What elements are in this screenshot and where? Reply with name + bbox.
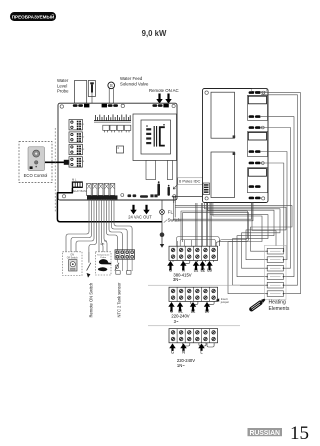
lug row L2 bbox=[249, 115, 261, 118]
svg-text:Temperature: Temperature bbox=[97, 253, 110, 256]
svg-text:jumper: jumper bbox=[220, 300, 229, 304]
triac block 1 bbox=[248, 95, 268, 120]
svg-text:Level: Level bbox=[57, 83, 67, 88]
heating element R5 bbox=[267, 282, 285, 288]
terminal strip 3 mains 220-240V 1ph bbox=[169, 329, 218, 347]
water level probe sensor bbox=[88, 81, 95, 104]
terminal lugs top group 1 (water probe) bbox=[73, 104, 90, 108]
badge RUSSIAN bbox=[248, 428, 283, 437]
svg-text:3~: 3~ bbox=[174, 319, 179, 324]
svg-text:Switch: Switch bbox=[168, 218, 181, 223]
heating element R1 bbox=[267, 248, 285, 254]
terminal lugs top group 3 (remote) bbox=[152, 104, 175, 108]
lug row L4 bbox=[249, 150, 261, 153]
label FL Switch bbox=[164, 209, 181, 222]
svg-text:Water Feed: Water Feed bbox=[120, 76, 143, 81]
ECO control dashed box bbox=[19, 142, 52, 183]
svg-text:Solenoid Valve: Solenoid Valve bbox=[120, 81, 149, 86]
wire ribbon main board to IDC bbox=[172, 195, 207, 203]
transformer T1 bbox=[133, 114, 177, 180]
label Remote ON AC bbox=[149, 88, 179, 93]
svg-text:Remote ON AC: Remote ON AC bbox=[149, 88, 179, 93]
terminal lugs top group 2 (solenoid) bbox=[102, 104, 118, 108]
svg-text:ECO Control: ECO Control bbox=[24, 173, 48, 178]
wire thick loop DIP to float switch bbox=[57, 188, 162, 222]
svg-text:L2: L2 bbox=[200, 268, 205, 273]
label ECO Control bbox=[24, 173, 48, 178]
main control board bbox=[58, 103, 177, 200]
triac block 2 bbox=[248, 132, 268, 157]
svg-text:220-240V: 220-240V bbox=[171, 313, 189, 318]
labels strip1 bbox=[169, 268, 213, 282]
separator line 2 bbox=[148, 325, 240, 327]
lug row L7 bottom bbox=[249, 197, 261, 200]
lug row L6 bbox=[249, 185, 261, 188]
ntc contact symbol bbox=[115, 263, 119, 271]
heating element R2 bbox=[267, 257, 285, 263]
relay K2 bbox=[69, 132, 85, 142]
svg-text:G: G bbox=[171, 349, 174, 354]
svg-text:9,0 kW: 9,0 kW bbox=[142, 29, 167, 38]
IDC connector on power board bbox=[203, 183, 210, 195]
remote on switch dashed box bbox=[63, 252, 83, 276]
heater cartridge icon bbox=[248, 298, 266, 313]
output connector bank bbox=[87, 183, 118, 199]
arrows strip3 bbox=[169, 343, 204, 350]
wiring harness right bus bbox=[261, 93, 301, 294]
ECO control device bbox=[28, 147, 45, 171]
remote on switch contact symbol bbox=[87, 252, 91, 278]
svg-text:Elements: Elements bbox=[269, 306, 290, 312]
svg-text:FL: FL bbox=[168, 209, 174, 214]
wiring harness element left returns bbox=[205, 203, 281, 294]
dashed boundary line left bbox=[54, 128, 56, 213]
harness shroud above strip1 bbox=[176, 237, 219, 246]
svg-text:15: 15 bbox=[290, 423, 309, 444]
ntc sensor dashed box bbox=[95, 252, 111, 275]
label Water Level Probe bbox=[57, 78, 69, 94]
capacitor C2 bbox=[168, 185, 170, 196]
small components bottom middle bbox=[121, 194, 158, 198]
label Remote ON Switch (vertical) bbox=[89, 282, 94, 318]
wire thick ECO control to relay bbox=[45, 160, 69, 165]
svg-text:Heating: Heating bbox=[269, 300, 286, 306]
svg-text:RUSSIAN: RUSSIAN bbox=[250, 430, 280, 437]
arrows 24 VAC OUT bbox=[128, 205, 152, 220]
arrows strip2 bbox=[168, 302, 210, 312]
heating element R6 bbox=[267, 291, 285, 297]
lug row L1 top bbox=[249, 89, 267, 94]
svg-text:M L: M L bbox=[72, 178, 77, 182]
labels strip2 bbox=[170, 308, 210, 323]
svg-text:NTC 2 Tank sensor: NTC 2 Tank sensor bbox=[117, 282, 122, 318]
lug row L3 bbox=[249, 126, 265, 129]
relay K1 bbox=[69, 120, 85, 130]
svg-text:24 VAC OUT: 24 VAC OUT bbox=[128, 214, 152, 219]
water tank box bbox=[75, 81, 87, 104]
labels strip3 bbox=[171, 349, 203, 368]
contactor B bbox=[211, 152, 235, 198]
terminal strip 1 mains 380-415V bbox=[169, 246, 218, 263]
svg-text:RELAY BANK: RELAY BANK bbox=[72, 189, 88, 193]
svg-text:Water: Water bbox=[57, 78, 69, 83]
label NTC 2 Tank sensor (vertical) bbox=[117, 282, 122, 318]
heating element R4 bbox=[267, 274, 285, 280]
arrows strip1 bbox=[167, 261, 212, 270]
heating element R3 bbox=[267, 265, 285, 271]
page number 15 bbox=[290, 423, 309, 444]
svg-text:L2: L2 bbox=[191, 308, 196, 313]
power board screws bbox=[205, 91, 265, 200]
svg-text:Probe: Probe bbox=[100, 256, 107, 259]
label Water Feed Solenoid Valve bbox=[120, 76, 149, 86]
fan of wires to lower boxes bbox=[66, 200, 132, 263]
arrow remote on AC 1 bbox=[156, 94, 162, 104]
svg-text:L1: L1 bbox=[194, 268, 199, 273]
board screws bbox=[60, 104, 176, 198]
triac block 3 bbox=[248, 168, 268, 193]
jumper note strip2 bbox=[216, 297, 230, 304]
lower terminal block bbox=[115, 250, 135, 259]
badge PREOBRAZUEMYI (top-left black pill) bbox=[10, 12, 56, 21]
capacitor C1 bbox=[157, 181, 160, 196]
float switch wire and symbol FL bbox=[160, 200, 165, 248]
wires below lower terminal block bbox=[116, 259, 132, 274]
DIP switch relay bank bbox=[72, 178, 88, 193]
IC U1 bbox=[117, 146, 124, 153]
separator line 1 bbox=[148, 284, 240, 286]
contactor A bbox=[211, 92, 235, 138]
svg-text:Probe: Probe bbox=[57, 89, 69, 94]
terminal strip 2 mains 220-240V 3ph bbox=[169, 287, 218, 304]
wire solenoid to board bbox=[109, 88, 113, 103]
power relay board bbox=[203, 89, 269, 203]
svg-text:L3: L3 bbox=[207, 268, 212, 273]
heating elements box bbox=[265, 245, 287, 299]
connector row J2 bbox=[103, 125, 131, 132]
svg-text:Remote ON Switch: Remote ON Switch bbox=[89, 282, 94, 318]
pin header J1 comb bbox=[94, 114, 131, 122]
svg-text:Off Switch: Off Switch bbox=[67, 256, 79, 259]
svg-text:1N~: 1N~ bbox=[177, 363, 185, 368]
svg-text:S: S bbox=[110, 83, 113, 89]
label 6 Poles IDC with arrow bbox=[173, 178, 203, 189]
relay K3 bbox=[69, 144, 85, 154]
svg-text:G: G bbox=[169, 268, 172, 273]
title 9,0 kW bbox=[142, 29, 167, 38]
svg-text:N: N bbox=[182, 349, 185, 354]
solenoid valve S symbol bbox=[108, 82, 115, 89]
arrow remote on AC 2 bbox=[165, 94, 171, 104]
svg-text:6 Poles IDC: 6 Poles IDC bbox=[179, 179, 200, 184]
lug row L5 bbox=[249, 162, 265, 165]
label Heating Elements bbox=[269, 300, 290, 312]
wiring harness bottom bbox=[174, 203, 293, 260]
relay K4 bbox=[69, 157, 85, 167]
svg-text:3N~: 3N~ bbox=[173, 277, 181, 282]
svg-text:ПРЕОБРАЗУЕМЫЙ: ПРЕОБРАЗУЕМЫЙ bbox=[12, 13, 55, 20]
svg-text:L3: L3 bbox=[205, 308, 210, 313]
